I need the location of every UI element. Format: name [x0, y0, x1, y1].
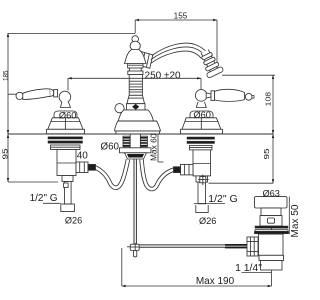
svg-text:155: 155 [174, 12, 188, 21]
svg-text:Ø60: Ø60 [193, 110, 211, 120]
svg-text:Ø60: Ø60 [59, 110, 77, 120]
svg-text:Ø26: Ø26 [65, 216, 82, 226]
svg-text:95: 95 [1, 149, 10, 160]
svg-text:Ø60: Ø60 [101, 142, 120, 153]
svg-text:Ø63: Ø63 [263, 188, 280, 198]
svg-text:95: 95 [262, 149, 271, 160]
svg-text:1/2" G: 1/2" G [30, 193, 58, 204]
svg-text:40: 40 [77, 150, 89, 161]
svg-text:108: 108 [263, 92, 272, 106]
svg-text:250 ±20: 250 ±20 [145, 70, 182, 81]
svg-text:Max 190: Max 190 [196, 276, 235, 287]
svg-text:185: 185 [1, 70, 10, 81]
svg-text:Max 60: Max 60 [148, 133, 158, 161]
svg-text:1 1/4": 1 1/4" [235, 263, 262, 274]
svg-text:Ø26: Ø26 [199, 216, 216, 226]
svg-text:1/2" G: 1/2" G [208, 193, 237, 205]
svg-text:Max 50: Max 50 [290, 204, 300, 237]
